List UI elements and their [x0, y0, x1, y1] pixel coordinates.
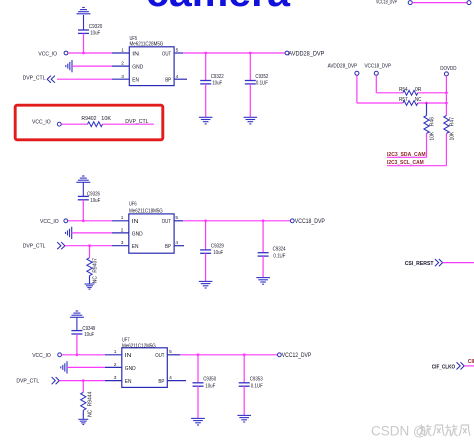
- svg-text:10uF: 10uF: [213, 250, 224, 256]
- svg-text:IN: IN: [132, 51, 139, 57]
- svg-text:R47: R47: [450, 117, 456, 126]
- svg-text:C9349: C9349: [82, 326, 95, 332]
- svg-text:R9407: R9407: [92, 258, 98, 273]
- svg-text:OUT: OUT: [162, 51, 172, 57]
- svg-text:DVP_CTL: DVP_CTL: [23, 244, 46, 250]
- svg-text:CSDN @: CSDN @: [371, 424, 427, 439]
- svg-text:Me6211C12M5G: Me6211C12M5G: [122, 343, 156, 349]
- svg-text:AVDD28_DVP: AVDD28_DVP: [328, 63, 358, 69]
- svg-text:NC: NC: [88, 409, 94, 417]
- svg-text:VCC_IO: VCC_IO: [32, 120, 51, 126]
- svg-text:0.1UF: 0.1UF: [273, 253, 286, 259]
- svg-text:R54: R54: [399, 87, 408, 93]
- svg-text:C9322: C9322: [211, 74, 224, 80]
- svg-text:BP: BP: [165, 244, 171, 250]
- svg-text:1: 1: [114, 349, 117, 355]
- svg-text:EN: EN: [132, 78, 139, 84]
- svg-text:1: 1: [121, 48, 124, 54]
- svg-text:C9326: C9326: [87, 191, 100, 197]
- svg-text:IN: IN: [125, 353, 132, 359]
- svg-text:VCC18_DVP: VCC18_DVP: [295, 219, 325, 225]
- svg-text:IN: IN: [132, 219, 139, 225]
- svg-text:CIF_CLKO: CIF_CLKO: [432, 364, 455, 370]
- svg-text:10K: 10K: [450, 131, 456, 141]
- svg-text:AVDD28_DVP: AVDD28_DVP: [288, 52, 324, 58]
- svg-text:VCC_IO: VCC_IO: [38, 52, 57, 58]
- svg-text:C9324: C9324: [273, 246, 286, 252]
- svg-text:EN: EN: [132, 244, 139, 250]
- svg-text:C9350: C9350: [203, 377, 216, 383]
- svg-text:3: 3: [121, 240, 124, 246]
- svg-text:DOVDD: DOVDD: [440, 66, 456, 72]
- svg-text:BP: BP: [165, 78, 171, 84]
- svg-text:2: 2: [114, 362, 117, 368]
- svg-text:R46: R46: [429, 117, 435, 126]
- svg-text:2: 2: [121, 61, 124, 67]
- svg-text:1: 1: [121, 215, 124, 221]
- svg-text:2: 2: [121, 227, 124, 233]
- svg-text:10uF: 10uF: [90, 31, 101, 37]
- svg-text:DVP_CTL: DVP_CTL: [23, 75, 46, 81]
- svg-text:DVP_CTL: DVP_CTL: [16, 378, 39, 384]
- svg-text:C9353: C9353: [250, 377, 263, 383]
- svg-text:DVP_CTL: DVP_CTL: [125, 119, 148, 125]
- svg-text:R9402: R9402: [81, 116, 96, 122]
- svg-text:VCC12_DVP: VCC12_DVP: [282, 353, 312, 359]
- svg-text:Me6211C28M5G: Me6211C28M5G: [130, 42, 164, 48]
- svg-text:10uF: 10uF: [84, 332, 95, 338]
- svg-text:UF6: UF6: [129, 202, 137, 208]
- svg-text:GND: GND: [125, 366, 136, 372]
- svg-text:VCC18_DVP: VCC18_DVP: [376, 0, 397, 5]
- svg-text:0.1UF: 0.1UF: [256, 81, 269, 87]
- svg-text:Me6211C18M5G: Me6211C18M5G: [129, 209, 163, 215]
- svg-text:10uF: 10uF: [90, 198, 101, 204]
- svg-text:VCC_IO: VCC_IO: [40, 219, 59, 225]
- svg-text:C9329: C9329: [211, 243, 224, 249]
- svg-text:C9320: C9320: [89, 24, 103, 30]
- svg-text:10uF: 10uF: [205, 384, 216, 390]
- svg-text:0.1UF: 0.1UF: [251, 384, 264, 390]
- svg-text:3: 3: [121, 74, 124, 80]
- svg-text:GND: GND: [132, 64, 143, 70]
- svg-text:GND: GND: [132, 231, 143, 237]
- svg-text:10K: 10K: [101, 116, 111, 122]
- svg-text:10K: 10K: [429, 131, 435, 141]
- svg-text:OUT: OUT: [155, 353, 165, 359]
- svg-text:VCC_IO: VCC_IO: [32, 353, 51, 359]
- svg-text:NC: NC: [92, 276, 98, 284]
- svg-text:0R: 0R: [415, 87, 422, 93]
- svg-text:CSI_RERST: CSI_RERST: [405, 261, 435, 267]
- svg-text:EN: EN: [125, 379, 132, 385]
- svg-text:10uF: 10uF: [212, 81, 223, 87]
- svg-text:OUT: OUT: [162, 219, 172, 225]
- svg-text:NC: NC: [415, 97, 422, 103]
- svg-text:R57: R57: [399, 97, 408, 103]
- svg-text:VCC18_DVP: VCC18_DVP: [365, 63, 392, 69]
- svg-text:C9352: C9352: [255, 74, 268, 80]
- svg-text:camera: camera: [146, 0, 291, 15]
- svg-text:BP: BP: [158, 379, 164, 385]
- svg-text:3: 3: [114, 375, 117, 381]
- svg-text:CIF_: CIF_: [468, 359, 474, 365]
- svg-text:R9444: R9444: [88, 391, 94, 406]
